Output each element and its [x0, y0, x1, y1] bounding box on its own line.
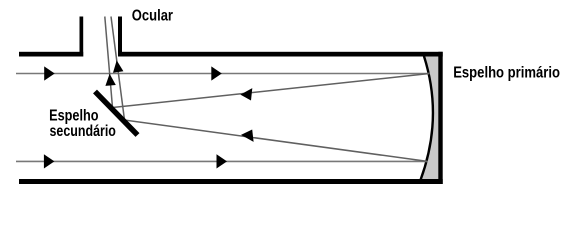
- svg-text:Ocular: Ocular: [132, 8, 173, 25]
- svg-text:secundário: secundário: [50, 123, 116, 140]
- svg-text:Espelho primário: Espelho primário: [453, 64, 560, 81]
- svg-text:Espelho: Espelho: [49, 107, 98, 124]
